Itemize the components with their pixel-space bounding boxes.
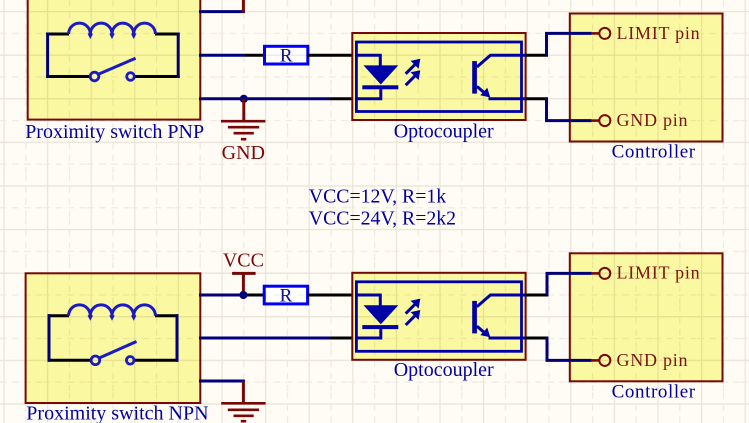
power port VCC bar xyxy=(232,272,256,275)
junction dot xyxy=(240,95,248,103)
ground bar 4 (NPN) xyxy=(241,420,246,423)
LED cathode bar xyxy=(362,85,398,89)
power port VCC stem xyxy=(242,273,245,295)
LED cathode lead xyxy=(356,89,381,99)
phototransistor collector (U2) xyxy=(477,295,526,307)
ground bar 3 (NPN) xyxy=(234,414,254,417)
wire: U2 collector to LIMIT pin (navy) xyxy=(547,273,592,295)
proximity switch NPN component body xyxy=(26,273,201,403)
pin LIMIT circle xyxy=(599,28,610,39)
phototransistor emitter shaft (U2) xyxy=(477,326,486,334)
wire: NPN box to VCC junction (navy) xyxy=(199,294,247,297)
switch blade xyxy=(98,58,135,74)
LED anode lead (U2) xyxy=(356,295,380,306)
LED anode lead xyxy=(356,55,380,66)
wire: coil loop top-right (black) xyxy=(155,33,180,36)
junction dot (VCC node) xyxy=(239,291,247,299)
wire: PNP box to GND junction and LED cathode (navy) xyxy=(199,97,330,100)
wire: NPN coil loop bottom-left (black) xyxy=(48,359,92,362)
phototransistor emitter arrowhead (U2) xyxy=(480,328,490,338)
wire: coil loop right vertical (navy) xyxy=(177,33,180,79)
switch contact left circle (NPN) xyxy=(91,356,100,365)
ground GND bar 3 xyxy=(234,132,254,135)
inductor coil (NPN sensor) xyxy=(69,305,156,316)
resistor R2 right pin (black) xyxy=(308,294,354,297)
pin GND circle (bottom controller) xyxy=(599,355,610,366)
wire: emitter to GND pin (navy) xyxy=(547,99,592,121)
light arrow lower shaft (U2) xyxy=(406,316,415,325)
wire: U2 emitter to GND pin (navy) xyxy=(547,338,592,360)
wire: NPN coil loop top-left (black) xyxy=(48,314,70,317)
optocoupler U1 body xyxy=(352,33,525,120)
LED cathode bar (U2) xyxy=(362,325,398,329)
phototransistor base bar (U2) xyxy=(472,301,477,334)
phototransistor base bar xyxy=(472,61,477,94)
phototransistor collector xyxy=(477,55,526,67)
controller body (top) xyxy=(570,14,723,142)
optocoupler U2 emitter pin (black) xyxy=(526,337,549,340)
wire: NPN coil loop bottom-right (black) xyxy=(134,359,179,362)
inductor coil (PNP sensor) xyxy=(69,23,156,34)
optocoupler U2 body xyxy=(352,273,525,360)
LED triangle (U2) xyxy=(364,305,399,324)
ground GND bar 4 xyxy=(241,138,246,141)
light arrow lower head xyxy=(411,70,421,80)
controller body (bottom) xyxy=(570,253,723,381)
switch contact right circle xyxy=(127,73,135,81)
wire: NPN box to ground (navy) xyxy=(199,380,245,383)
ground bar 1 (NPN) xyxy=(221,402,265,405)
proximity switch PNP component body xyxy=(28,0,201,120)
light arrow upper shaft xyxy=(406,65,415,74)
pin LIMIT lead xyxy=(592,32,599,35)
LED cathode pin (black) xyxy=(330,97,354,100)
wire: PNP box to VCC (navy) xyxy=(199,10,245,13)
optocoupler emitter pin (black) xyxy=(526,97,548,100)
wire: NPN coil loop top-right (black) xyxy=(155,314,179,317)
phototransistor emitter arrowhead xyxy=(480,88,490,98)
pin LIMIT circle (bottom) xyxy=(599,268,610,279)
wire: coil loop left vertical (navy) xyxy=(46,33,49,79)
optocoupler U2 collector pin (black) xyxy=(526,294,549,297)
wire: PNP box to resistor (navy) xyxy=(199,54,245,57)
resistor R1 right pin (black) xyxy=(308,54,354,57)
LED triangle xyxy=(364,65,399,84)
ground GND bar 2 xyxy=(228,126,259,129)
ground stem (NPN) xyxy=(242,381,245,403)
optocoupler U1 inner outline xyxy=(356,42,521,112)
wire: coil loop bottom-right (black) xyxy=(134,75,180,78)
wire: NPN coil loop right vertical (navy) xyxy=(176,314,179,362)
LED cathode lead (U2) xyxy=(356,329,381,338)
switch contact right circle (NPN) xyxy=(126,357,134,365)
pin GND circle (top controller) xyxy=(599,115,610,126)
phototransistor emitter shaft xyxy=(477,86,486,94)
switch contact left circle xyxy=(90,72,99,81)
resistor R2 left pin (black) xyxy=(247,294,264,297)
light arrow upper head (U2) xyxy=(411,299,421,309)
pin GND lead (bottom controller) xyxy=(592,359,599,362)
light arrow upper head xyxy=(411,59,421,69)
wire: NPN box to LED cathode (navy) xyxy=(199,337,330,340)
ground GND bar 1 xyxy=(221,120,265,123)
wire: coil loop bottom-left (black) xyxy=(46,75,90,78)
ground bar 2 (NPN) xyxy=(228,408,259,411)
optocoupler U2 inner outline xyxy=(356,282,521,352)
wire: NPN coil loop left vertical (navy) xyxy=(48,314,51,362)
phototransistor emitter lead (U2) xyxy=(489,337,526,340)
optocoupler collector pin (black) xyxy=(526,54,548,57)
wire: coil loop top-left (black) xyxy=(46,33,69,36)
light arrow lower shaft xyxy=(406,76,415,85)
wire: collector to LIMIT pin (navy) xyxy=(547,33,592,55)
resistor R1 body xyxy=(265,46,308,64)
pin LIMIT lead (bottom) xyxy=(592,272,599,275)
LED cathode pin NPN circuit (black) xyxy=(330,337,354,340)
ground GND stem xyxy=(242,99,245,121)
resistor R2 body xyxy=(264,286,307,304)
phototransistor emitter lead xyxy=(489,97,526,100)
light arrow upper shaft (U2) xyxy=(406,305,415,314)
light arrow lower head (U2) xyxy=(411,310,421,320)
switch blade (NPN) xyxy=(99,342,136,359)
resistor R1 left pin (black) xyxy=(245,54,265,57)
power port VCC stem (top, cut off) xyxy=(242,0,245,13)
pin GND lead (top controller) xyxy=(592,119,599,122)
